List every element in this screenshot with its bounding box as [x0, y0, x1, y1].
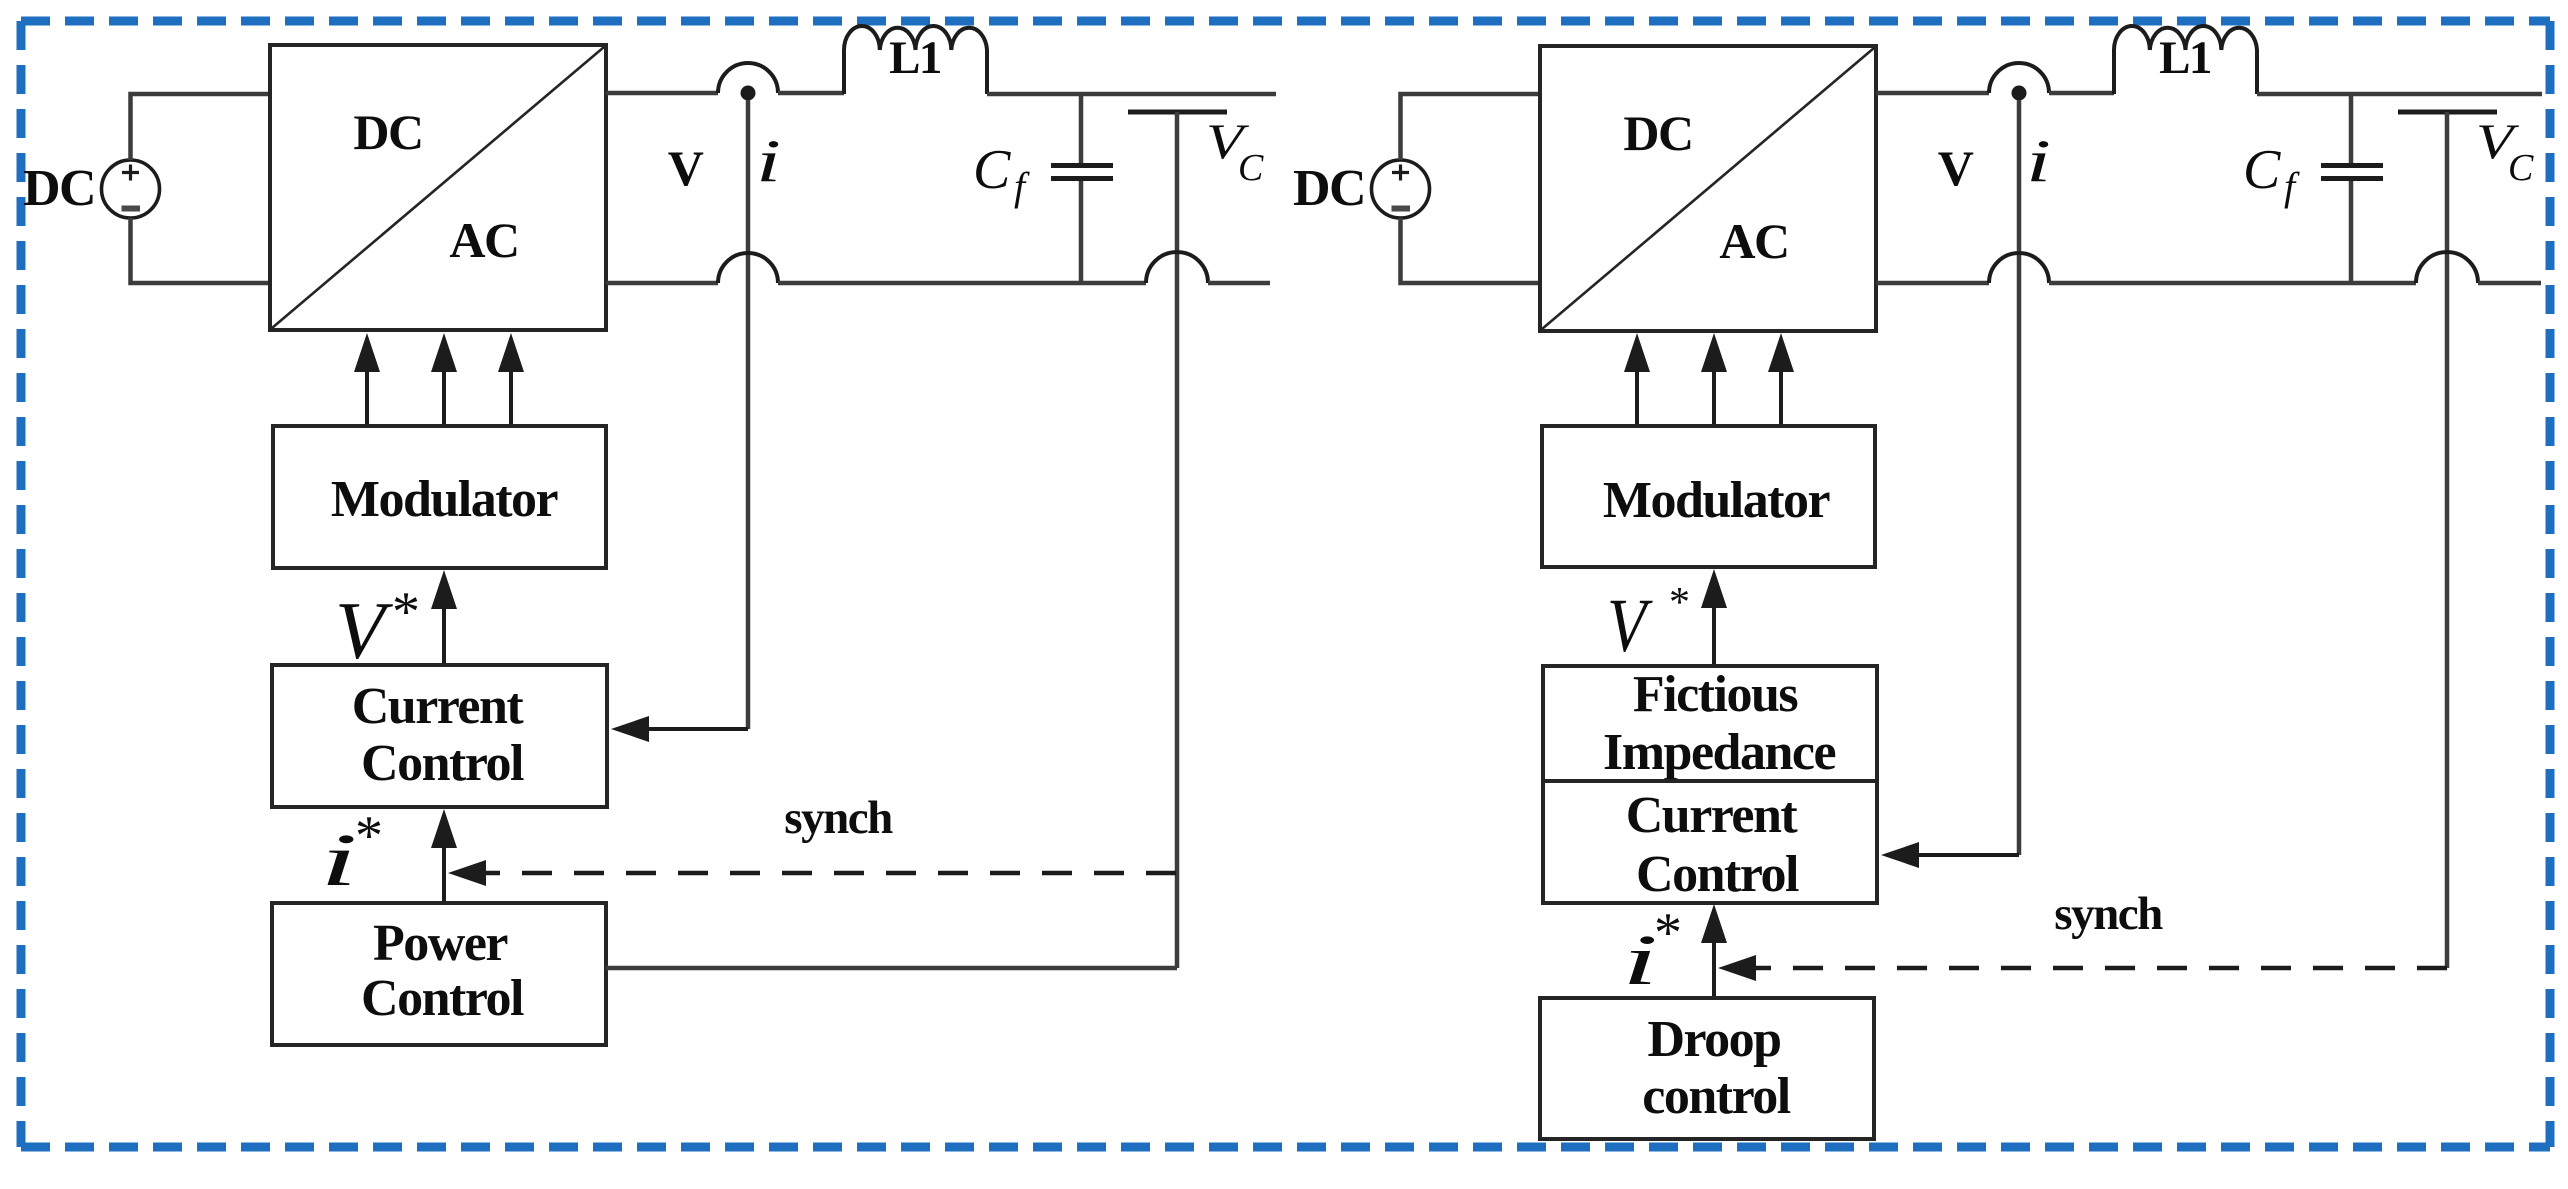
arrow i* into Current Control (left) — [431, 809, 457, 903]
wire bottom rail converter to sensor (left) — [606, 281, 718, 286]
svg-text:*: * — [392, 581, 420, 643]
svg-text:AC: AC — [449, 212, 518, 268]
label L1 (right) — [2159, 32, 2211, 84]
svg-text:synch: synch — [2054, 888, 2163, 940]
wire top rail sensor to inductor (right) — [2049, 91, 2114, 96]
label synch (left) — [784, 792, 893, 844]
wire DC source top to converter (left) — [131, 94, 271, 160]
wire bottom rail middle (left) — [778, 281, 1146, 286]
hump bottom rail over current line (left) — [718, 253, 778, 283]
wire top rail left of sensor (left) — [606, 91, 718, 96]
svg-text:C: C — [973, 139, 1011, 201]
svg-text:Current: Current — [1626, 787, 1799, 844]
wire bottom rail converter to sensor (right) — [1876, 281, 1989, 286]
arrow current feedback into Current Control (left) — [611, 716, 748, 742]
svg-text:Modulator: Modulator — [1603, 472, 1830, 529]
wire Power Control to Vc sense line (left) — [606, 966, 1177, 971]
label i (current, left) — [756, 128, 781, 195]
dashed synch line into i* node (left) — [448, 860, 1176, 886]
label Vc (right) — [2476, 114, 2534, 189]
voltage sensor probe bar Vc (right) — [2398, 112, 2497, 968]
svg-text:L1: L1 — [889, 32, 941, 84]
wire top rail inductor to end (right) — [2257, 92, 2542, 97]
svg-text:*: * — [1669, 580, 1690, 626]
hump bottom rail over current line (right) — [1989, 253, 2049, 283]
node current tap dot (left) — [741, 86, 756, 101]
label Cf (left) — [973, 139, 1030, 209]
hump bottom rail over voltage line (left) — [1146, 252, 1208, 283]
block Modulator (right) — [1542, 426, 1875, 567]
DC source V1 (left) — [102, 160, 160, 218]
svg-text:L1: L1 — [2159, 32, 2211, 84]
svg-text:C: C — [2508, 147, 2534, 189]
wire bottom rail end (right) — [2478, 281, 2541, 286]
arrow V* into Modulator (right) — [1701, 569, 1727, 666]
label V* (left) — [335, 581, 420, 676]
svg-text:V: V — [1607, 584, 1653, 668]
arrow V* into Modulator (left) — [431, 570, 457, 665]
label i (current, right) — [2026, 128, 2051, 195]
block Current Control (right) — [1543, 781, 1877, 903]
capacitor Cf (left) — [1051, 93, 1113, 283]
svg-text:Power: Power — [373, 915, 507, 972]
label Cf (right) — [2243, 139, 2300, 209]
block Current Control (left) — [272, 665, 607, 807]
converter U2 DC/AC (right) — [1540, 46, 1876, 331]
dashed synch line into i* node (right) — [1718, 955, 2447, 981]
svg-text:V: V — [335, 585, 393, 676]
label L1 (left) — [889, 32, 941, 84]
wire DC source bottom to converter (left) — [131, 218, 271, 283]
node DC (right source label) — [1293, 160, 1365, 217]
wire top rail left of sensor (right) — [1876, 91, 1989, 96]
DC source V2 (right) — [1372, 160, 1430, 218]
wire current sensor vertical drop (right) — [2017, 100, 2022, 855]
current sensor hump on top rail (left) — [718, 63, 778, 93]
svg-text:Control: Control — [361, 735, 524, 792]
svg-text:C: C — [1238, 147, 1264, 189]
svg-text:AC: AC — [1719, 213, 1788, 269]
svg-text:Impedance: Impedance — [1603, 724, 1835, 781]
svg-text:i: i — [1622, 920, 1658, 1000]
label V (inverter voltage, right) — [1938, 140, 1974, 196]
hump bottom rail over voltage line (right) — [2416, 252, 2478, 283]
label synch (right) — [2054, 888, 2163, 940]
svg-text:*: * — [355, 805, 383, 867]
gate arrow 1 Modulator to converter (left) — [354, 333, 380, 426]
svg-text:i: i — [2026, 128, 2051, 195]
svg-text:Modulator: Modulator — [331, 471, 558, 528]
svg-text:DC: DC — [23, 160, 95, 217]
svg-text:Control: Control — [1636, 846, 1799, 903]
svg-text:C: C — [2243, 139, 2281, 201]
label i* (right) — [1622, 902, 1682, 1000]
wire current sensor vertical drop (left) — [746, 100, 751, 729]
svg-text:Current: Current — [352, 678, 525, 735]
voltage sensor probe bar Vc (left) — [1128, 112, 1227, 968]
svg-text:DC: DC — [1293, 160, 1365, 217]
wire top rail sensor to inductor (left) — [778, 91, 844, 96]
gate arrow 3 Modulator to converter (left) — [498, 333, 524, 426]
capacitor Cf (right) — [2321, 93, 2383, 283]
wire DC source top to converter (right) — [1401, 94, 1541, 160]
arrow current feedback into Current Control (right) — [1881, 842, 2019, 868]
gate arrow 1 Modulator to converter (right) — [1624, 333, 1650, 426]
label V (inverter voltage, left) — [668, 140, 704, 196]
node DC (left source label) — [23, 160, 95, 217]
svg-text:DC: DC — [353, 104, 422, 160]
wire top rail inductor to end (left) — [987, 92, 1276, 97]
svg-text:Fictious: Fictious — [1633, 666, 1797, 723]
label i* (left) — [320, 805, 383, 901]
label Vc (left) — [1206, 114, 1264, 189]
label V* (right) — [1607, 580, 1690, 668]
svg-text:i: i — [756, 128, 781, 195]
gate arrow 3 Modulator to converter (right) — [1768, 333, 1794, 426]
inductor L1 (right) — [2114, 26, 2257, 94]
svg-text:Control: Control — [361, 970, 524, 1027]
node current tap dot (right) — [2012, 86, 2027, 101]
current sensor hump on top rail (right) — [1989, 63, 2049, 93]
wire bottom rail middle (right) — [2049, 281, 2416, 286]
arrow i* into Current Control (right) — [1701, 904, 1727, 998]
svg-text:synch: synch — [784, 792, 893, 844]
svg-text:Droop: Droop — [1647, 1011, 1780, 1068]
svg-text:*: * — [1654, 902, 1682, 964]
converter U1 DC/AC (left) — [270, 45, 606, 330]
svg-text:V: V — [668, 140, 704, 196]
block Droop control (right) — [1540, 998, 1874, 1139]
block Modulator (left) — [273, 426, 606, 568]
svg-text:V: V — [1938, 140, 1974, 196]
block Power Control (left) — [272, 903, 606, 1045]
wire DC source bottom to converter (right) — [1401, 218, 1541, 283]
svg-text:control: control — [1642, 1068, 1790, 1125]
gate arrow 2 Modulator to converter (left) — [431, 333, 457, 426]
block Fictious Impedance (right) — [1543, 666, 1877, 781]
inductor L1 (left) — [844, 26, 987, 94]
gate arrow 2 Modulator to converter (right) — [1701, 333, 1727, 426]
wire bottom rail end (left) — [1208, 281, 1270, 286]
svg-text:DC: DC — [1623, 105, 1692, 161]
svg-text:i: i — [320, 818, 358, 901]
